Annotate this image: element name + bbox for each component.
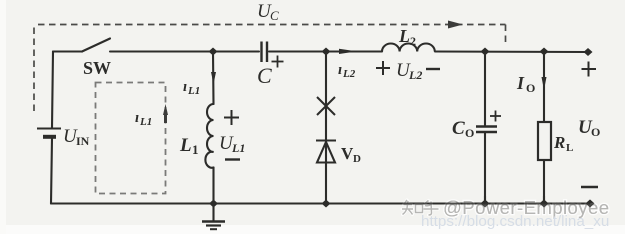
svg-text:IN: IN [76,134,90,148]
resistor RL [538,122,551,160]
node RL bottom [540,200,549,208]
svg-text:L1: L1 [231,141,245,155]
plus of C [272,56,284,68]
arrow on iL1 loop [163,104,168,115]
node Co top [481,48,490,56]
battery UIN [37,129,61,137]
capacitor C [262,42,268,63]
wire top main [110,50,259,52]
current arrow iL2 on wire [339,49,357,54]
wire RL branch upper [543,52,545,123]
svg-text:O: O [591,125,600,139]
capacitor Co [476,127,497,133]
svg-text:2: 2 [410,34,416,48]
terminal minus output [586,200,595,208]
svg-text:C: C [257,63,272,88]
inductor L2 [382,43,435,51]
svg-text:C: C [270,8,279,23]
svg-text:O: O [465,126,474,140]
svg-text:L: L [179,135,192,156]
wire battery to bottom [51,138,52,204]
node diode bottom [322,200,331,208]
plus of UL2 [376,61,390,75]
node Co bottom overlay [481,200,490,208]
node diode top [322,48,331,56]
plus of UL1 [224,110,239,125]
dashed iL1 loop box [96,83,166,194]
wire Co branch lower [484,133,486,204]
arrow on UC loop [448,21,463,29]
svg-text:L1: L1 [139,116,152,128]
node RL bottom overlay [540,200,549,208]
node L1 top [209,48,218,56]
ground [202,204,225,230]
svg-text:1: 1 [192,142,199,157]
switch SW [82,39,110,52]
wire RL branch lower [543,160,545,204]
svg-text:O: O [526,81,535,95]
minus of UL2 [426,68,440,70]
output plus sign [582,62,597,77]
wire Co branch upper [484,52,486,126]
svg-text:L: L [398,26,410,46]
inductor L1 [205,104,213,168]
wire left vertical [52,52,53,128]
node L1 bottom [209,200,218,208]
diode VD [316,141,336,163]
svg-text:R: R [553,133,565,152]
svg-text:https://blog.csdn.net/lina_xu: https://blog.csdn.net/lina_xu [421,213,609,230]
svg-text:D: D [353,153,361,165]
current arrow Io on wire [542,77,547,90]
svg-text:ı: ı [135,110,139,126]
svg-text:ı: ı [338,62,342,78]
plus of Co [490,111,501,122]
wire L1 branch upper [212,52,215,105]
X mark on diode branch [317,97,335,115]
svg-text:L2: L2 [342,68,356,80]
terminal minus overlay [586,200,595,208]
svg-text:ı: ı [183,79,187,95]
svg-text:L1: L1 [187,85,200,97]
output minus sign [581,186,598,189]
svg-text:L: L [566,142,573,154]
svg-text:I: I [516,73,525,93]
node RL top [540,48,549,56]
minus of UL1 [225,158,240,160]
wire bottom overlay through watermark [395,196,590,204]
node Co bottom [481,200,490,208]
dashed UC loop [34,25,506,112]
svg-text:L2: L2 [408,68,422,82]
terminal plus output [584,48,593,56]
watermark zhihu glyphs [402,200,439,215]
wire top after L2 [435,50,588,53]
wire L1 branch lower [212,168,214,204]
svg-text:SW: SW [83,58,111,78]
wire diode branch [325,52,327,204]
svg-text:C: C [452,118,465,139]
wire top between C and L2 [269,50,382,52]
wire top left segment [53,50,82,52]
wire bottom [51,202,590,204]
current arrow iL1 on wire [211,72,216,84]
